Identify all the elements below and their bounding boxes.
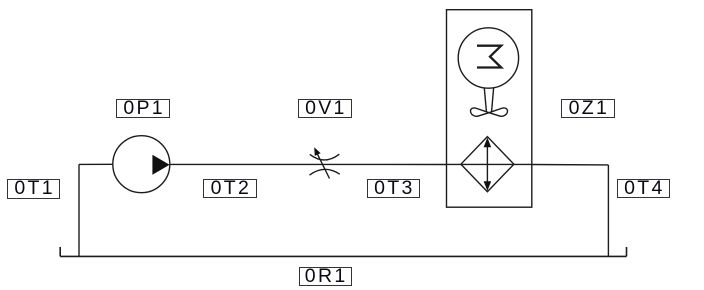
label 0P1: [116, 99, 170, 118]
label 0T4: [617, 179, 671, 198]
unit 0Z1 enclosure: [447, 10, 532, 208]
label 0V1: [298, 99, 352, 118]
wire left riser: [78, 164, 80, 256]
wire pipe pump to valve to unit: [170, 163, 447, 165]
motor M1 circle: [458, 28, 518, 88]
agitator propeller: [471, 108, 508, 116]
label 0Z1: [561, 99, 615, 118]
wire pipe pump inlet: [79, 163, 113, 165]
label 0T1: [7, 179, 60, 199]
pump 0P1: [113, 136, 170, 193]
wire right riser: [607, 165, 609, 257]
shaft: [484, 88, 493, 112]
label 0T3: [367, 179, 421, 198]
valve 0V1 throttle: [310, 147, 340, 178]
label 0R1: [299, 267, 352, 286]
filter diamond: [461, 137, 514, 192]
wire pipe unit outlet: [532, 164, 609, 166]
label 0T2: [203, 179, 257, 198]
reservoir 0R1 tank line: [60, 247, 626, 256]
wire pipe through unit: [447, 163, 532, 165]
